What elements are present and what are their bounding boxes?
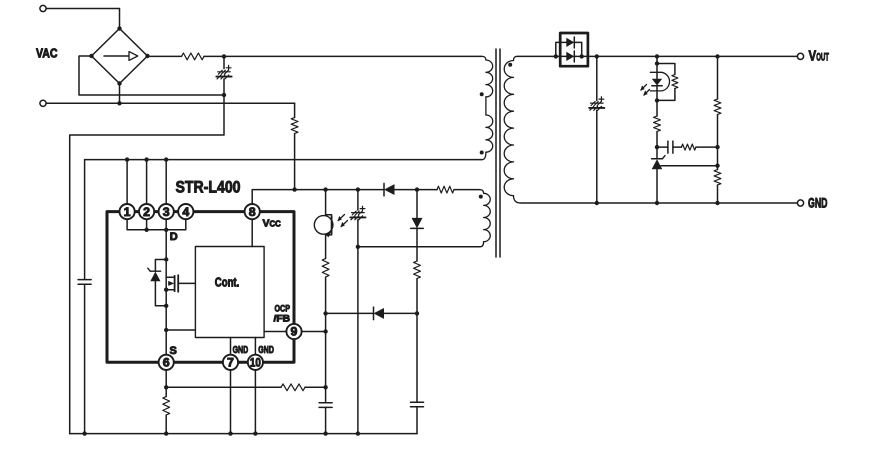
wire bridge right vertex to resistor [148,55,182,57]
LED PC1 (photocoupler diode) [650,64,669,101]
resistor R7 (OVP) [414,261,421,278]
svg-text:2: 2 [143,205,150,219]
wire drain to MOSFET [165,230,167,277]
pin 9 [286,324,301,339]
wire drain bus (transformer primary bottom) [85,159,482,161]
node compensation branch [655,145,659,149]
wire OVP resistor to FB diode node [415,279,419,316]
svg-text:10: 10 [250,356,261,370]
node divider mid [715,145,719,166]
transformer T1 auxiliary winding [480,190,490,247]
pin 2 [139,204,154,219]
svg-text:VAC: VAC [36,47,58,61]
label S (source) [170,345,177,357]
svg-text:GND: GND [808,196,828,211]
svg-text:OUT: OUT [816,52,829,64]
wire DC bus to transformer primary [204,55,482,57]
resistor R6 (VCC series) [417,186,480,193]
wire OCP resistor to FB node [305,385,328,389]
light arrows out of LED [640,85,649,96]
wire bridge bottom vertex to AC line 2 [117,84,121,106]
node pin 9 junction [302,329,328,333]
svg-text:8: 8 [249,205,256,219]
label GND [808,196,828,211]
svg-text:GND: GND [233,345,249,356]
capacitor C2 (drain snubber) [78,160,91,436]
capacitor C1 (bulk electrolytic) [216,56,231,95]
node LED bottom [655,98,659,102]
wire AC input line 1 (top) [46,9,119,29]
resistor R5 (photocoupler emitter) [322,259,329,278]
transformer T1 core [496,49,500,257]
svg-text:Cont.: Cont. [215,276,240,290]
svg-text:9: 9 [291,325,298,339]
capacitor C4 (FB) [319,387,332,436]
terminal VOUT [797,53,803,59]
wire primary GND rail (bottom) [70,433,417,435]
polarity dot auxiliary [479,195,483,199]
pin 4 [178,204,193,219]
svg-text:6: 6 [163,356,170,370]
label OCP/FB [274,303,291,324]
wire pin 6 to sense node [164,370,168,389]
label Vcc [263,218,282,230]
polarity dot secondary [508,63,512,67]
node VCC cap top [356,187,360,191]
svg-text:V: V [809,48,817,65]
resistor R12 (divider lower) [714,166,721,206]
wire pin 8 to VCC line [252,190,294,205]
wire pin 7 to GND rail [228,370,232,436]
wire startup feed down from AC line 2 [294,103,296,117]
node C1 negative / DC-minus [222,93,226,97]
capacitor C7 + resistor R10 (compensation) [657,141,718,153]
wire aux winding bottom to VCC cap line [358,246,480,248]
wire VCC line [295,189,358,191]
transistor Q1 (power MOSFET) [164,275,195,292]
wire TL431 ref to divider [661,164,720,168]
wire FB node vertical [325,313,327,387]
node rectifier cathode [580,54,584,58]
node divider top [715,54,719,58]
diode D4 (OVP) [411,190,424,261]
polarity dot primary lower [480,151,484,155]
pin 7 [223,355,238,370]
terminal AC input 1 [40,5,46,11]
wire pin 7 to controller [230,338,232,355]
wire output bus [582,55,798,57]
dual diode D6 (secondary rectifier) [556,33,588,66]
wire sense node to OCP resistor [166,386,281,388]
node rectifier anode [554,54,558,58]
wire secondary top to rectifier [517,55,556,57]
resistor R8 (LED parallel) [657,64,678,101]
label VAC [36,47,58,61]
pin 1 [120,204,135,219]
op-amp U1 STR-L400 IC outline [107,212,294,363]
svg-text:STR-L400: STR-L400 [176,178,241,197]
node VCC diode / OVP branch [415,187,419,191]
label GND pin10 [258,345,274,356]
zener diode D2 (avalanche clamp) [148,260,166,306]
wire LED branch [655,56,659,65]
diode D5 (FB line) [326,307,417,320]
pin 3 [159,204,174,219]
svg-text:/FB: /FB [274,314,291,325]
node zener top [164,257,168,261]
svg-text:D: D [170,231,178,243]
svg-text:S: S [170,345,177,357]
polarity dot primary upper [480,92,484,96]
wire internal drain bus pins 1-4 [127,219,186,232]
node DC bus / C1 top [222,54,226,58]
node photocoupler collector [323,187,327,191]
svg-text:GND: GND [258,345,274,356]
bridge rectifier D1 [89,26,149,85]
resistor R9 (LED series) [654,100,661,147]
wire DC-minus down-left to primary GND rail [70,95,224,434]
wire VCC cap line to GND rail [356,247,360,436]
svg-text:1: 1 [124,205,131,219]
label GND pin7 [233,345,249,356]
capacitor C5 (OCP filter) [411,402,424,433]
wire emitter resistor to FB node [323,277,327,316]
svg-text:7: 7 [227,356,234,370]
pin 8 [245,204,260,219]
resistor R11 (divider upper) [714,56,721,147]
node drain bus pin1 riser [125,157,129,204]
diode D3 (VCC rectifier) [358,183,417,196]
resistor R1 (inrush, DC bus) [182,53,205,60]
pin 6 [159,355,174,370]
wire source vertical to pin 6 [165,290,167,355]
label STR-L400 [176,178,241,197]
wire bridge left vertex to DC-minus node [79,56,224,95]
svg-text:4: 4 [182,205,189,219]
wire secondary GND bus [521,202,797,204]
node aux return junction [356,245,360,249]
wire pin 10 to GND rail [253,370,257,436]
wire pin 10 to controller [254,338,256,355]
light arrows into phototransistor [337,215,347,228]
node drain bus pin3 riser [164,157,168,204]
transistor PC1 (photocoupler phototransistor) [314,190,333,259]
wire AC input line 2 (bottom) [46,102,295,104]
shunt regulator U2 (TL431) [652,147,665,205]
terminal GND [797,200,803,206]
label VOUT [809,48,830,65]
resistor R2 (startup) [291,118,298,134]
label D (drain) [170,231,178,243]
capacitor C6 (output electrolytic) [589,56,604,205]
transformer T1 primary winding [482,56,493,159]
wire OVP branch to output cap C5 [416,313,418,401]
wire pin 8 to controller [251,219,253,246]
wire startup resistor to VCC line [292,134,296,192]
pin 10 [248,355,263,370]
capacitor C3 (VCC electrolytic) [350,190,365,247]
node LED branch top [655,54,659,58]
node drain bus pin2 riser [144,157,148,204]
terminal AC input 2 [40,100,46,106]
transformer T1 secondary winding [504,56,521,203]
node zener bottom / source [164,304,168,308]
controller block Cont. [195,247,264,338]
wire pin 9 to controller [264,331,286,333]
svg-text:3: 3 [163,205,170,219]
resistor R4 (OCP divider) [281,384,305,391]
node source to controller [164,328,195,332]
node output cap top [595,54,599,58]
resistor R3 (current sense) [163,387,170,436]
svg-text:VCC: VCC [263,218,282,230]
